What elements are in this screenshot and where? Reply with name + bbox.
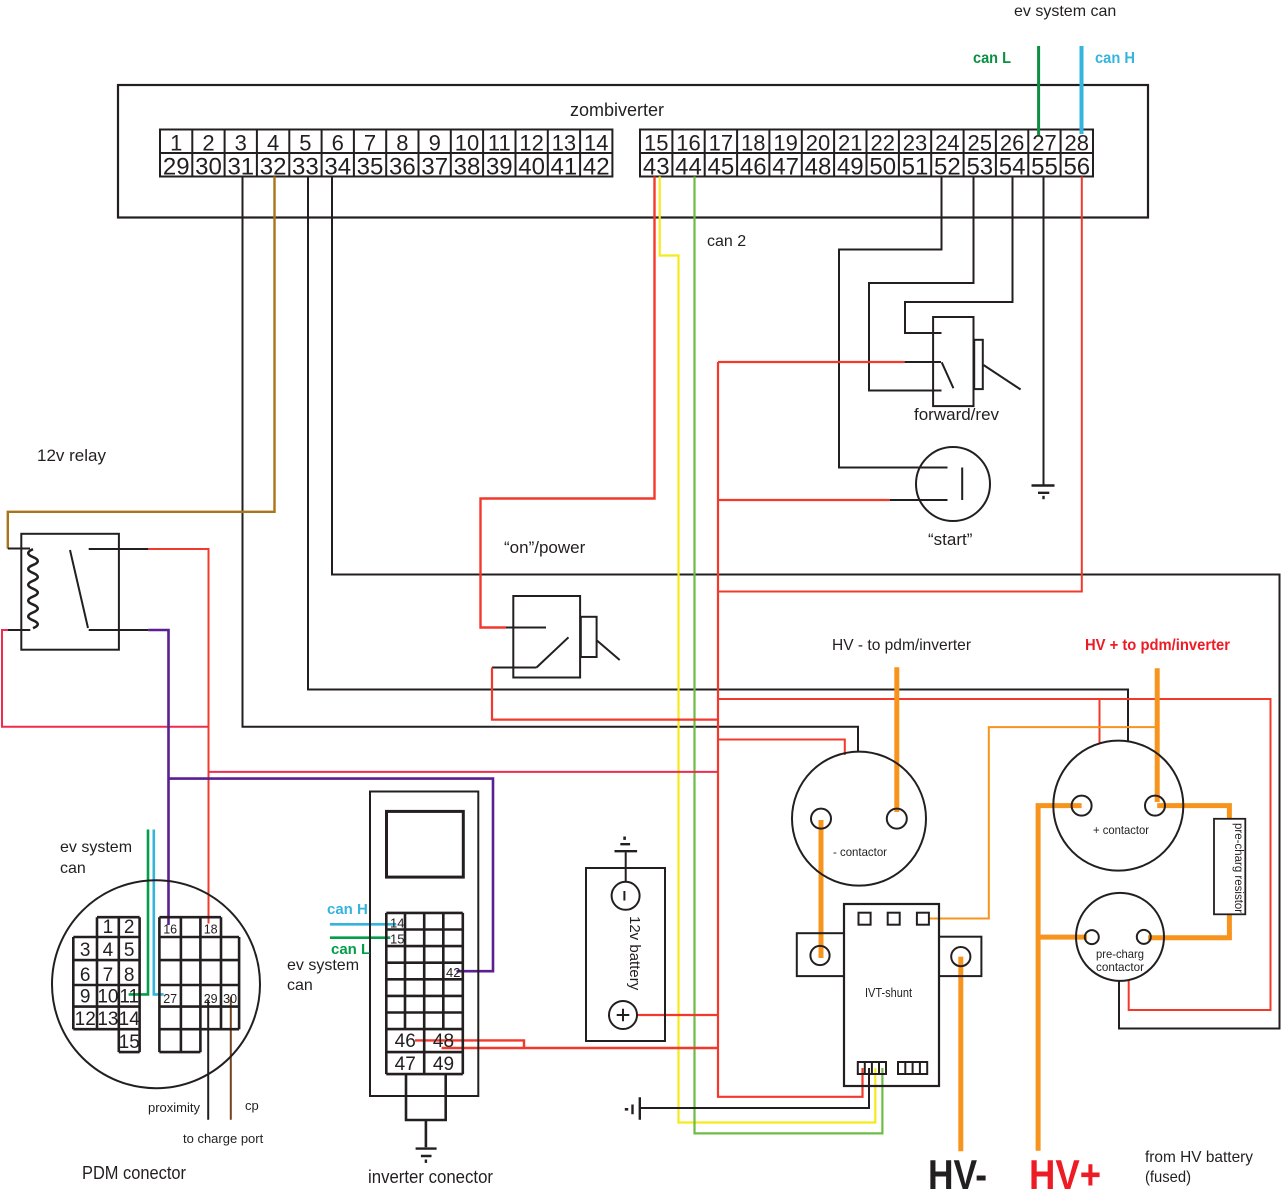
label proximity [148,1100,201,1115]
svg-text:2: 2 [202,131,214,156]
label PDM conector [82,1163,186,1183]
svg-text:54: 54 [999,154,1026,181]
svg-text:- contactor: - contactor [833,845,887,859]
wire on/power return (red) to 12v bus [492,668,718,720]
wire pin52 to start switch [839,177,948,468]
svg-text:4: 4 [103,940,114,961]
svg-text:43: 43 [643,154,670,181]
wire ev system can L (green) into PDM pin 11 [129,830,148,995]
svg-text:pre-charg resistor: pre-charg resistor [1232,823,1244,913]
wire red bus to 12v battery + [637,1014,718,1016]
svg-text:12v battery: 12v battery [626,916,643,991]
svg-text:40: 40 [518,154,545,181]
svg-text:36: 36 [389,154,416,181]
svg-text:13: 13 [97,1009,118,1030]
wire IVT-shunt to HV- battery feed (thick orange) [958,957,963,1152]
+ contactor K3 [1053,741,1183,871]
svg-text:41: 41 [551,154,578,181]
wire inverter pins 47/49 to ground [406,1074,446,1147]
svg-text:16: 16 [676,131,700,156]
svg-text:15: 15 [390,932,404,947]
svg-text:HV-: HV- [928,1151,987,1198]
wire HV+ to pdm/inverter (thick orange) [1155,668,1160,802]
svg-text:forward/rev: forward/rev [914,405,1000,424]
switch S1 "on"/power [492,596,620,678]
svg-text:can L: can L [973,50,1011,67]
wire pin56 (red) joining 12v bus [718,177,1082,592]
svg-text:52: 52 [934,154,961,181]
svg-text:inverter conector: inverter conector [368,1167,493,1187]
label to charge port [183,1131,264,1146]
svg-text:26: 26 [1000,131,1024,156]
svg-text:27: 27 [1032,131,1056,156]
wire pin33 to + contactor coil [308,177,1128,742]
svg-text:10: 10 [97,987,118,1008]
wire pin34 to pre-charg contactor coil (via right edge) [332,177,1280,1029]
svg-text:31: 31 [227,154,254,181]
svg-text:29: 29 [204,992,218,1006]
svg-text:ev system: ev system [287,957,359,974]
svg-text:50: 50 [869,154,896,181]
12v relay K1 [8,534,149,650]
label "on"/power [504,538,586,557]
wire pin53 to forward/rev lower pin [869,177,974,391]
svg-text:from HV battery: from HV battery [1145,1149,1253,1166]
svg-text:49: 49 [837,154,864,181]
label HV + to pdm/inverter [1085,637,1230,654]
svg-text:to charge port: to charge port [183,1131,264,1146]
wire + contactor / pre-charg contactor to HV+ battery feed (thick orange) [1038,806,1087,1151]
switch S2 forward/rev [869,317,1021,406]
svg-text:16: 16 [163,923,177,937]
svg-text:11: 11 [119,987,139,1008]
svg-text:5: 5 [299,131,311,156]
label ev system can (inverter) [287,957,359,994]
svg-text:can 2: can 2 [707,233,746,250]
svg-text:38: 38 [454,154,481,181]
svg-text:IVT-shunt: IVT-shunt [865,986,912,1000]
svg-text:48: 48 [805,154,832,181]
svg-text:13: 13 [552,131,576,156]
svg-text:“start”: “start” [928,530,973,549]
svg-text:12v relay: 12v relay [37,446,106,465]
svg-text:29: 29 [163,154,190,181]
svg-text:49: 49 [433,1054,454,1075]
svg-text:23: 23 [903,131,927,156]
svg-text:PDM conector: PDM conector [82,1163,186,1183]
label inverter conector [368,1167,493,1187]
svg-text:11: 11 [488,131,511,156]
pin table 1 (pins 1-14 / 29-42) [160,130,612,181]
label HV- (battery feed) [928,1151,987,1198]
- contactor K2 [792,752,926,886]
label can L (inverter) [331,941,370,958]
svg-text:can L: can L [331,941,370,958]
svg-text:7: 7 [364,131,376,156]
svg-text:zombiverter: zombiverter [570,100,664,120]
label forward/rev [914,405,1000,424]
svg-text:19: 19 [773,131,797,156]
svg-text:47: 47 [395,1054,416,1075]
svg-text:6: 6 [80,965,91,986]
node: ev system can (top) [1014,3,1116,20]
PDM right pin grid (16-30) [159,917,239,1052]
svg-text:28: 28 [1065,131,1089,156]
pre-charg contactor K4 [1076,893,1164,981]
wire - contactor to IVT-shunt (thick orange) [819,820,824,958]
wire pin31 to - contactor coil [243,177,859,753]
wire 12v red bus vertical [717,362,719,1047]
svg-text:(fused): (fused) [1145,1169,1191,1186]
svg-text:18: 18 [204,923,218,937]
svg-text:30: 30 [195,154,222,181]
svg-text:21: 21 [838,131,862,156]
svg-text:ev system can: ev system can [1014,3,1116,20]
wire can H (cyan) into inverter pin 14 [330,923,396,926]
svg-text:12: 12 [75,1009,96,1030]
wire purple branch to inverter pin 42 [169,779,494,972]
IVT-shunt module [797,904,982,1086]
svg-text:42: 42 [446,965,460,980]
ground symbol above battery - [615,837,638,852]
wire can H (blue) into pin 28 [1082,46,1136,134]
svg-text:can: can [60,860,86,877]
svg-text:37: 37 [421,154,448,181]
wire inverter pin48 (red) to 12v bus [442,1047,718,1049]
svg-text:“on”/power: “on”/power [504,538,586,557]
wire crimson link to 12v bus [209,771,719,773]
wire battery - terminal up [625,852,627,882]
pre-charg resistor R1 [1214,819,1245,915]
battery BT1 12v [586,868,665,1041]
wire red bus to start switch [718,499,890,501]
wire pin44 (yellow) to IVT-shunt [660,177,876,1123]
svg-text:44: 44 [675,154,702,181]
svg-text:14: 14 [119,1009,141,1030]
wire pin32 to 12v relay coil (brown) [8,177,275,549]
wire red bus to forward/rev common [718,361,905,363]
svg-text:1: 1 [103,917,114,938]
wire relay switched output (purple) to PDM pin 16 [148,630,168,925]
label from HV battery (fused) [1145,1149,1253,1186]
svg-text:8: 8 [124,965,135,986]
label "start" [928,530,973,549]
ground symbol (inverter) [416,1149,437,1163]
wire ground to IVT-shunt pin [640,1068,869,1108]
svg-text:8: 8 [396,131,408,156]
svg-text:cp: cp [245,1098,259,1113]
svg-text:proximity: proximity [148,1100,201,1115]
PDM left pin grid (1-15) [73,917,139,1052]
wire can L (dark green) into pin 27 [973,46,1039,135]
svg-text:46: 46 [395,1031,416,1052]
svg-text:46: 46 [740,154,767,181]
wire red branch to + contactor coil [1099,699,1101,744]
svg-text:27: 27 [163,992,177,1006]
svg-text:56: 56 [1063,154,1090,181]
svg-text:3: 3 [235,131,247,156]
svg-text:33: 33 [292,154,319,181]
ground symbol (pin 55) [1032,486,1055,500]
svg-text:14: 14 [584,131,608,156]
svg-text:HV - to pdm/inverter: HV - to pdm/inverter [832,637,972,654]
svg-text:32: 32 [260,154,287,181]
label 12v relay [37,446,106,465]
label HV+ (battery feed) [1029,1151,1101,1198]
svg-text:18: 18 [741,131,765,156]
svg-text:4: 4 [267,131,279,156]
svg-text:45: 45 [708,154,735,181]
inverter connector J2 [370,792,478,1097]
svg-text:10: 10 [455,131,479,156]
svg-text:22: 22 [870,131,894,156]
svg-text:30: 30 [223,992,237,1006]
svg-text:17: 17 [709,131,733,156]
svg-text:HV+: HV+ [1029,1151,1101,1198]
svg-text:1: 1 [170,131,182,156]
wire pin55 to ground [1043,177,1045,485]
zombiverter U1 box [118,85,1148,218]
svg-text:HV + to pdm/inverter: HV + to pdm/inverter [1085,637,1230,654]
wire + contactor to pre-charg resistor (thick orange) [1157,806,1229,819]
svg-text:6: 6 [332,131,344,156]
svg-text:53: 53 [966,154,993,181]
svg-text:+ contactor: + contactor [1093,823,1149,837]
wire red bus to - contactor coil [718,740,845,756]
svg-text:9: 9 [429,131,441,156]
svg-text:42: 42 [583,154,610,181]
svg-text:12: 12 [519,131,543,156]
svg-text:7: 7 [103,965,114,986]
svg-text:39: 39 [486,154,513,181]
wire pin43 to on/power switch (red) [481,177,655,628]
svg-text:34: 34 [324,154,351,181]
label ev system can (PDM) [60,839,132,877]
label can H (inverter) [327,901,368,918]
wire relay NO contact to PDM pin 18 (red) [148,549,208,924]
label cp [245,1098,259,1113]
ground symbol (12v battery negative rail) [625,1097,640,1120]
svg-text:pre-charg: pre-charg [1096,947,1144,961]
wire pre-charg resistor to pre-charg contactor (thick orange) [1148,914,1229,937]
svg-text:15: 15 [644,131,668,156]
svg-text:can: can [287,977,313,994]
node: can 2 label [707,233,746,250]
svg-text:can H: can H [1095,50,1135,67]
svg-text:ev system: ev system [60,839,132,856]
wire red bus to IVT-shunt sense pin [718,1047,863,1097]
wire ev system can H (cyan) into PDM pin 27 [154,830,164,995]
svg-text:15: 15 [119,1032,140,1053]
pin table 2 (pins 15-28 / 43-56) [640,130,1093,181]
label HV - to pdm/inverter [832,637,972,654]
svg-text:55: 55 [1031,154,1058,181]
wire PDM pin 30 cp (brown) [230,997,232,1120]
svg-text:51: 51 [902,154,929,181]
PDM connector J1 [52,880,260,1088]
wire relay coil return (crimson) [2,630,209,727]
wire pin44 (light green) to IVT-shunt [695,177,883,1134]
svg-text:9: 9 [80,987,91,1008]
svg-text:3: 3 [80,940,91,961]
svg-text:48: 48 [433,1031,454,1052]
svg-text:20: 20 [806,131,830,156]
svg-text:24: 24 [935,131,959,156]
svg-text:35: 35 [357,154,384,181]
switch S3 "start" (push button) [890,447,990,521]
svg-text:2: 2 [124,917,135,938]
wire HV- to pdm/inverter (thick orange) [894,667,899,812]
wire red bus to pre-charg contactor coil (via far right) [718,699,1271,1010]
wire can L (green) into inverter pin 15 [330,936,390,939]
wire IVT-shunt signal to HV+ (thin orange) [929,727,1157,918]
wire pin54 to forward/rev upper pin [905,177,1013,334]
svg-text:47: 47 [772,154,799,181]
svg-text:5: 5 [124,940,135,961]
wire inverter pin46 (red) [415,1040,524,1048]
svg-text:can H: can H [327,901,368,918]
wire PDM pin 29 proximity [207,1000,209,1120]
svg-text:25: 25 [968,131,992,156]
svg-text:14: 14 [390,916,404,931]
svg-text:contactor: contactor [1096,960,1144,974]
